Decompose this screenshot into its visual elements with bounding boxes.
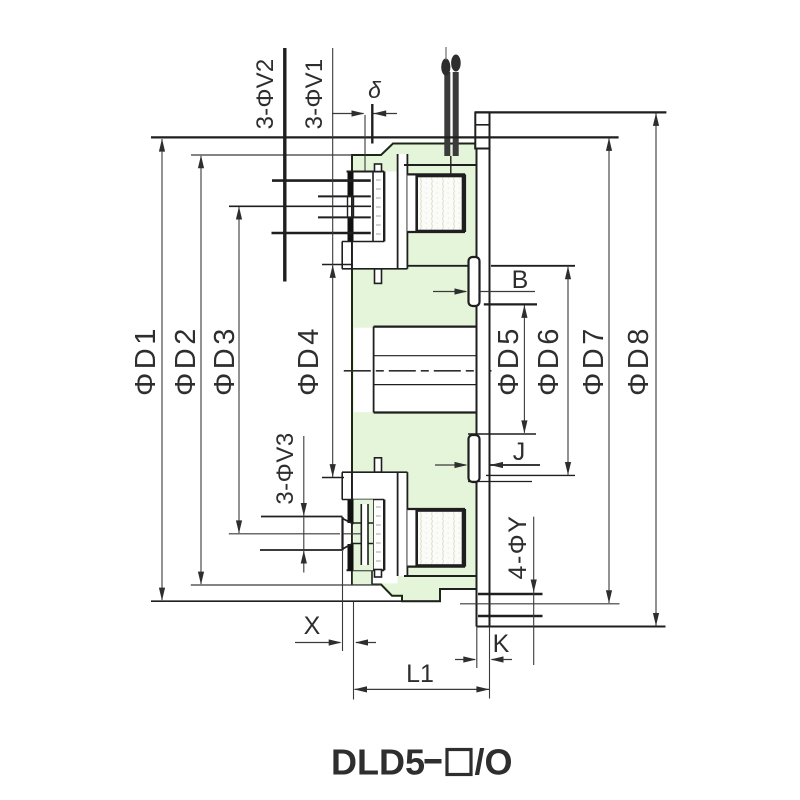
svg-text:3-ΦV1: 3-ΦV1 xyxy=(301,59,328,130)
flat screw head xyxy=(343,517,362,551)
svg-text:3-ΦV3: 3-ΦV3 xyxy=(272,432,299,504)
svg-text:/O: /O xyxy=(475,742,513,783)
dim PhiD2 xyxy=(170,155,204,584)
svg-text:ΦD6: ΦD6 xyxy=(533,325,565,396)
leader 4-PhiY xyxy=(504,515,537,665)
notch top edge xyxy=(441,588,478,590)
extension line D4 bottom xyxy=(322,477,344,479)
rotor body green xyxy=(352,144,477,602)
svg-text:ΦD4: ΦD4 xyxy=(293,325,325,396)
hub cutout bottom xyxy=(353,472,398,583)
title DLD5 xyxy=(331,742,513,783)
dim B xyxy=(433,266,535,295)
leader 3-PhiV3 xyxy=(272,432,307,572)
svg-text:ΦD1: ΦD1 xyxy=(130,325,162,396)
hub sleeve bottom xyxy=(342,472,407,499)
svg-text:X: X xyxy=(304,612,321,640)
coil slot bottom xyxy=(407,509,465,567)
flat screw bottom lines xyxy=(260,517,343,551)
extension line D5 top xyxy=(484,303,537,305)
spline strip bottom xyxy=(373,500,384,571)
extension line D5 bottom xyxy=(468,433,536,435)
hub cutout top xyxy=(353,172,398,269)
bobbin tab top inner xyxy=(375,269,382,284)
dim X xyxy=(295,551,376,700)
leader 3-PhiV2 xyxy=(252,48,285,282)
svg-text:ΦD3: ΦD3 xyxy=(209,325,241,396)
dim J xyxy=(435,438,540,468)
lead wire right xyxy=(451,55,461,157)
extension line D6 bottom xyxy=(486,474,575,476)
inner pole edge lines xyxy=(404,165,477,576)
extension line D3 top xyxy=(229,205,371,207)
dim PhiD7 xyxy=(578,138,612,603)
disc face bar bottom xyxy=(348,500,354,571)
svg-text:L1: L1 xyxy=(406,660,434,688)
dim PhiD6 xyxy=(533,266,571,475)
svg-text:3-ΦV2: 3-ΦV2 xyxy=(252,59,279,130)
svg-text:ΦD7: ΦD7 xyxy=(578,325,610,396)
svg-text:B: B xyxy=(512,266,529,294)
svg-text:K: K xyxy=(493,630,510,658)
svg-text:ΦD8: ΦD8 xyxy=(623,325,655,396)
hub boss around screw xyxy=(354,500,374,571)
dim delta gap xyxy=(332,77,397,171)
svg-text:δ: δ xyxy=(368,77,381,103)
hub sleeve top xyxy=(342,242,407,269)
air gap strip bottom xyxy=(398,472,408,576)
dim L1 xyxy=(354,660,489,693)
air gap strip top xyxy=(398,154,408,269)
bobbin tab bottom inner xyxy=(375,458,382,472)
extension line D1 bottom xyxy=(151,600,440,602)
extension line pill bottom xyxy=(468,481,532,483)
dim PhiD1 xyxy=(130,139,165,601)
coil top xyxy=(417,176,463,231)
coil slot top xyxy=(407,174,465,232)
rotor rim bottom piece xyxy=(353,570,372,584)
hub top edge xyxy=(347,171,385,173)
label 3-PhiV1 xyxy=(301,59,328,130)
svg-text:DLD5: DLD5 xyxy=(331,742,425,783)
dim PhiD8 xyxy=(623,113,659,626)
dim PhiD5 xyxy=(493,305,528,434)
extension line D4 top xyxy=(322,264,351,266)
extension line D2 bottom xyxy=(191,584,381,586)
centerline xyxy=(344,370,492,372)
dim PhiD4 and leader 3-PhiV1 xyxy=(293,48,336,477)
extension line D8 bottom xyxy=(477,626,666,628)
spline strip top xyxy=(373,172,384,242)
cap screw top lines xyxy=(272,181,371,233)
wire tail xyxy=(450,156,452,176)
armature plate xyxy=(477,112,490,626)
lead wire left xyxy=(441,47,450,156)
bobbin tab top outer xyxy=(375,164,382,172)
leaf spring pill bottom J xyxy=(469,435,480,482)
extension line D2 top xyxy=(191,154,352,156)
extension line D1 D7 top xyxy=(151,136,619,138)
svg-text:ΦD5: ΦD5 xyxy=(493,325,525,396)
leaf spring pill top B xyxy=(469,257,480,306)
svg-text:ΦD2: ΦD2 xyxy=(170,325,202,396)
extension line D6 top xyxy=(408,265,575,267)
shaft bore xyxy=(354,327,477,413)
hub bottom edge xyxy=(347,569,385,571)
bobbin tab bottom outer xyxy=(375,570,382,578)
svg-text:J: J xyxy=(513,438,526,466)
dim PhiD3 xyxy=(209,207,242,534)
svg-text:4-ΦY: 4-ΦY xyxy=(504,515,532,580)
disc face bar top xyxy=(348,172,354,242)
bottom flange bolt lines 4-PhiY xyxy=(478,594,543,616)
extension line D3 bottom xyxy=(229,533,340,535)
extension line D8 top xyxy=(475,111,666,113)
extension line D7 bottom xyxy=(460,603,620,605)
dim K xyxy=(455,627,512,699)
coil bottom xyxy=(417,511,463,566)
terminal block xyxy=(475,112,489,148)
